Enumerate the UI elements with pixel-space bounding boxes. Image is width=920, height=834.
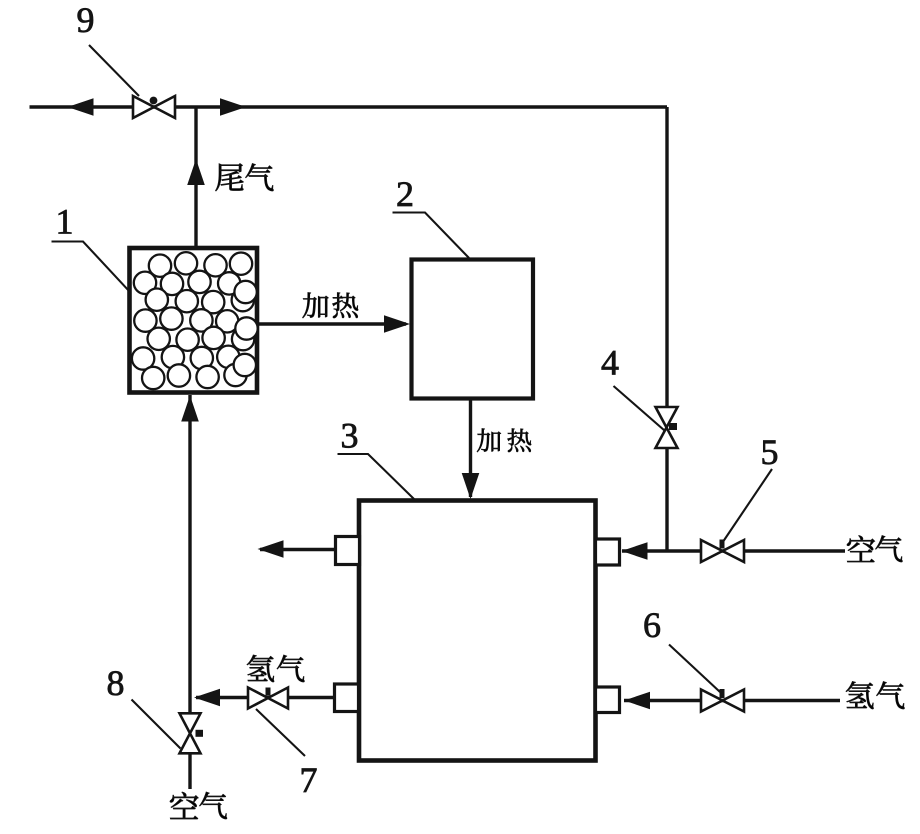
leader to valve 5 [724, 469, 773, 541]
svg-text:5: 5 [761, 432, 779, 472]
leader to valve 8 [132, 700, 181, 749]
arrow left (out of box 3) [258, 540, 284, 558]
valve 9 [133, 96, 154, 118]
valve 6 [701, 690, 723, 712]
wire box1 to box2 [257, 322, 406, 325]
port left lower [335, 684, 359, 712]
box 2 [412, 260, 534, 399]
leader to box 3 [338, 454, 415, 499]
arrow left (top line) [68, 98, 94, 116]
svg-text:7: 7 [300, 760, 318, 800]
wire right vertical to valve 4 [665, 107, 668, 408]
svg-text:2: 2 [396, 174, 414, 214]
arrow left (hydrogen into air line) [194, 689, 220, 707]
svg-text:9: 9 [77, 0, 95, 40]
text tail gas (wei qi) [215, 163, 243, 191]
arrow left (hydrogen into box 3) [624, 692, 650, 710]
svg-text:6: 6 [643, 605, 661, 645]
wire tail-gas vertical [194, 107, 197, 250]
valve 5 [701, 540, 723, 562]
arrow up (tail gas) [187, 159, 205, 185]
arrow right (top line) [220, 98, 246, 116]
leader to valve 4 [614, 386, 665, 431]
packing circles in box 1 [149, 255, 171, 277]
svg-text:4: 4 [601, 343, 619, 383]
leader to box 2 [393, 213, 470, 259]
text hydrogen (qing qi) left [247, 655, 274, 682]
valve 4 [656, 407, 678, 428]
port right lower [596, 687, 620, 713]
arrow down (box2 to box3) [462, 473, 480, 499]
text air (kong qi) bottom [170, 792, 198, 819]
wire air right [622, 549, 845, 552]
text heating (jia re) horizontal [303, 292, 329, 317]
wire below valve 8 [188, 753, 191, 789]
svg-text:8: 8 [107, 663, 125, 703]
leader to valve 9 [89, 45, 139, 96]
wire air vertical (box1 bottom to valve 8) [188, 395, 191, 714]
svg-text:3: 3 [341, 416, 359, 456]
box 1 (scrubber) [130, 248, 258, 393]
arrow up (into box 1) [181, 396, 199, 422]
leader to valve 7 [256, 709, 305, 756]
wire hydrogen left [196, 696, 337, 699]
wire out of left port [260, 548, 337, 551]
wire top horizontal [30, 105, 668, 108]
wire hydrogen right [624, 699, 840, 702]
arrow right (box1 to box2) [384, 315, 410, 333]
valve 7 [248, 688, 268, 709]
wire box2 to box3 [469, 398, 472, 497]
text air (kong qi) right [847, 536, 875, 562]
text heating (jia re) vertical [477, 428, 501, 452]
leader to box 1 [52, 242, 130, 292]
svg-text:1: 1 [56, 202, 74, 242]
text hydrogen (qing qi) right [846, 682, 874, 709]
wire valve 4 to air line [665, 448, 668, 553]
port left upper [336, 537, 360, 565]
valve 8 [180, 713, 201, 733]
arrow left (air into box 3) [622, 542, 648, 560]
leader to valve 6 [669, 645, 720, 693]
port right upper [596, 539, 620, 565]
box 3 (reactor) [359, 501, 596, 761]
